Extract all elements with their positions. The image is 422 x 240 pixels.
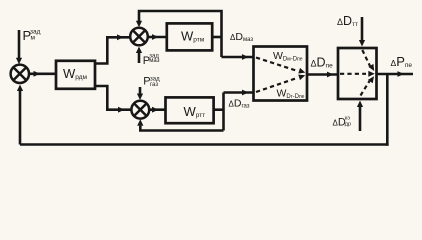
dashed path Dpe through object — [340, 73, 366, 75]
arrowhead coupling lower converge — [298, 75, 305, 81]
dashed path Dmaz to Dpe — [256, 58, 296, 71]
arrowhead into SJ2 left — [117, 34, 124, 40]
wire bottom feedback run — [20, 143, 389, 146]
arrowhead into SJ3 top — [137, 94, 143, 101]
arrowhead into SJ2 top — [136, 21, 142, 28]
arrowhead SJ3 to Wrtt — [152, 107, 159, 113]
wire feedback tap vertical — [386, 74, 389, 146]
arrowhead coupling upper converge — [298, 68, 305, 74]
arrowhead object mid converge — [368, 71, 375, 77]
wire dDtt input — [361, 17, 364, 40]
wire dDmaz to coupling block — [222, 56, 254, 59]
wire output dPpe — [377, 73, 414, 76]
wire SJ3 to Wrtt — [149, 108, 165, 111]
wire Pgaz setpoint stub — [139, 87, 142, 94]
summing junction SJ1 — [11, 65, 29, 83]
arrowhead dDpe into object block — [327, 72, 334, 78]
wire dDdr input — [359, 107, 362, 131]
arrowhead dDtt into object top — [359, 40, 365, 47]
arrowhead into SJ1 top — [16, 58, 22, 64]
svg-text:м: м — [31, 35, 36, 42]
arrowhead dDdr into object bottom — [357, 101, 363, 108]
wire Wrdm lower branch to SJ3 — [95, 86, 132, 110]
arrowhead dDgaz into coupling block — [242, 90, 249, 96]
arrowhead object top converge — [368, 64, 374, 71]
wire Pmaz setpoint stub — [138, 51, 141, 64]
wire SJ1 to Wrdm — [29, 73, 56, 76]
arrowhead dDmaz into coupling block — [242, 54, 249, 60]
wire Wrtm output — [212, 36, 221, 39]
svg-text:др: др — [345, 122, 351, 128]
block coupling WDmDpe/WDgDpe — [254, 47, 308, 101]
block Wrtt — [166, 97, 214, 123]
arrowhead object bottom converge — [368, 76, 374, 83]
wire Wrtm feedback loop — [139, 11, 222, 57]
arrowhead into SJ1 bottom — [17, 85, 23, 92]
wire SJ2 to Wrtm — [148, 36, 167, 39]
block Wrdm — [56, 61, 95, 89]
wire dDgaz to coupling block — [224, 91, 254, 94]
arrowhead into SJ3 left — [118, 107, 125, 113]
dashed path Dgaz to Dpe — [256, 78, 296, 92]
block object boiler — [338, 48, 377, 99]
dashed path Dtt through object — [362, 50, 370, 66]
block Wrtm — [167, 23, 212, 50]
wire Wrtt output — [214, 108, 224, 111]
summing junction SJ3 — [131, 101, 149, 119]
wire main feedback riser into SJ1 — [19, 91, 22, 145]
arrowhead SJ1 to Wrdm — [34, 71, 41, 77]
arrowhead into SJ3 bottom — [137, 119, 143, 126]
wire Wrdm upper branch to SJ2 — [95, 37, 130, 63]
arrowhead into SJ2 bottom — [136, 47, 142, 54]
wire Wrtt feedback loop — [140, 126, 223, 131]
arrowhead output dPpe — [398, 71, 405, 77]
arrowhead SJ2 to Wrtm — [152, 34, 159, 40]
wire Wrtt output vertical — [222, 93, 225, 131]
dashed path Ddr through object — [361, 81, 370, 96]
svg-text:газ: газ — [150, 82, 158, 88]
wire Pm setpoint input — [18, 30, 21, 58]
svg-text:маз: маз — [149, 58, 159, 64]
summing junction SJ2 — [130, 28, 148, 46]
svg-text:кэ: кэ — [345, 115, 350, 121]
wire dDpe coupling to object — [307, 73, 338, 76]
